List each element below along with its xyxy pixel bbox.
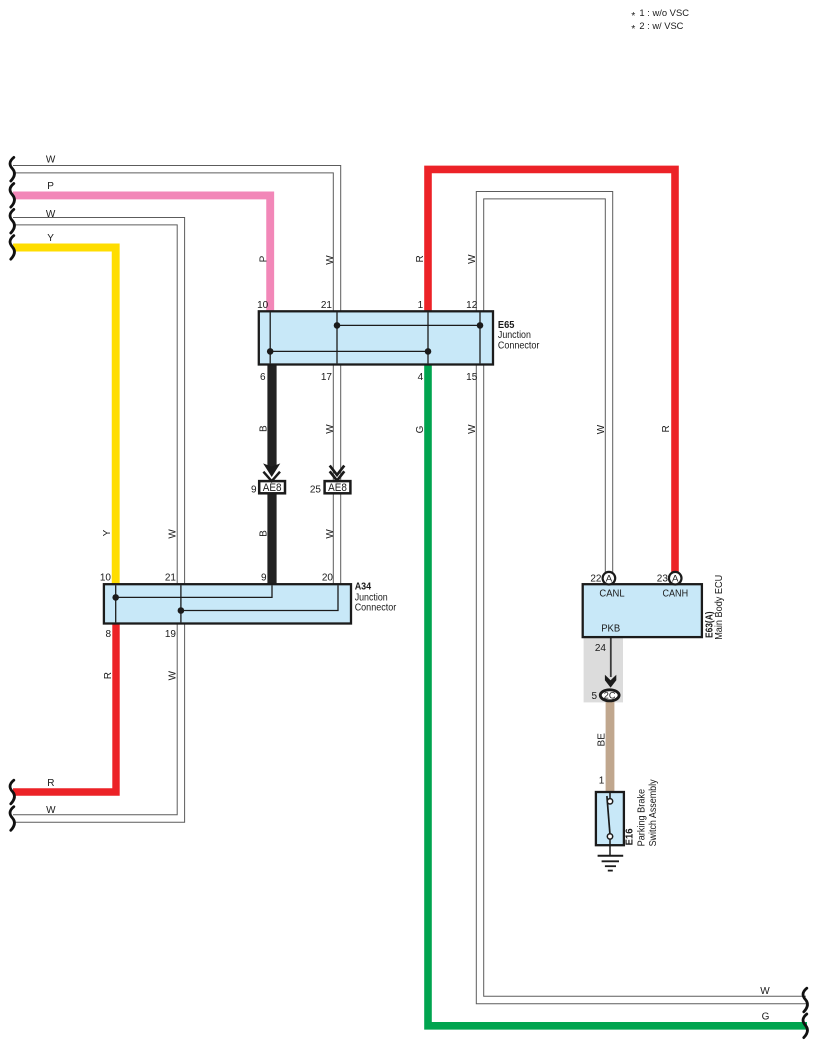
squiggle W left 2: [10, 209, 14, 233]
E65 internal pass-through 12-15: [479, 312, 481, 363]
svg-text:W: W: [596, 424, 607, 434]
svg-text:17: 17: [321, 372, 333, 383]
E63 pin 22 circle A: [603, 572, 616, 585]
wire Y yellow from left edge to A34 pin 10: [13, 248, 116, 586]
E65 internal pass-through 10-6: [269, 312, 271, 363]
svg-text:P: P: [47, 181, 54, 192]
svg-text:22: 22: [590, 574, 602, 585]
svg-text:E16: E16: [624, 828, 635, 845]
wire to ground: [609, 839, 611, 855]
svg-text:6: 6: [260, 372, 266, 383]
svg-text:Switch Assembly: Switch Assembly: [648, 779, 659, 846]
svg-text:Main Body ECU: Main Body ECU: [714, 575, 725, 640]
E65 junction dot pin 10/6: [267, 348, 274, 355]
svg-text:PKB: PKB: [601, 623, 620, 634]
svg-text:A34: A34: [355, 581, 372, 592]
svg-text:AE8: AE8: [263, 482, 282, 494]
svg-text:W: W: [467, 424, 478, 434]
svg-text:1: 1: [418, 300, 424, 311]
svg-text:Parking Brake: Parking Brake: [637, 789, 648, 847]
E65 internal pass-through 21-17: [336, 312, 338, 363]
svg-text:W: W: [168, 529, 179, 539]
svg-text:4: 4: [418, 372, 424, 383]
svg-text:B: B: [258, 530, 269, 537]
svg-text:CANL: CANL: [599, 589, 625, 600]
connector 2C ellipse: [600, 690, 619, 701]
svg-text:W: W: [467, 254, 478, 264]
E65 internal bus lower: [270, 350, 428, 352]
svg-text:10: 10: [100, 573, 112, 584]
A34 junction dot pin 10/8: [112, 594, 119, 601]
wire R red E65 pin 1 over top to E63 pin 23 CANH: [428, 169, 675, 576]
svg-text:W: W: [46, 209, 56, 220]
svg-text:9: 9: [261, 573, 267, 584]
svg-text:A: A: [672, 574, 679, 585]
wire R red A34 pin 8 to left edge exit: [13, 623, 116, 792]
svg-text:*: *: [631, 10, 635, 22]
junction connector E65 box: [259, 311, 493, 364]
wire W from left edge to E65 pin 21: [13, 169, 337, 312]
svg-text:W: W: [325, 529, 336, 539]
wire W E65 pin 12 to E63 pin 22 CANL: [480, 195, 609, 576]
E65 junction dot pin 1/4: [425, 348, 432, 355]
svg-text:P: P: [259, 255, 270, 262]
svg-text:Y: Y: [102, 529, 113, 536]
wire W E65 pin 17 to AE8 connector 25: [333, 364, 341, 482]
svg-text:21: 21: [321, 300, 333, 311]
svg-text:CANH: CANH: [663, 589, 689, 600]
svg-text:1: 1: [599, 776, 605, 787]
E65 junction dot pin 21/17: [334, 322, 341, 329]
wire B black AE8 connector 9 to A34 pin 9: [267, 494, 276, 585]
junction connector A34 box: [104, 584, 351, 623]
svg-text:W: W: [325, 424, 336, 434]
wire W A34 pin 19 to left edge exit: [13, 623, 181, 819]
E16 switch blade: [607, 796, 610, 834]
E65 junction dot pin 12/15: [477, 322, 484, 329]
svg-text:R: R: [415, 255, 426, 262]
squiggle W bottom left: [10, 807, 14, 831]
svg-text:BE: BE: [596, 733, 607, 747]
svg-text:15: 15: [466, 372, 478, 383]
AE8 connector 25 box: [325, 481, 351, 493]
E63 pin 23 circle A: [669, 572, 682, 585]
wire G green E65 pin 4 to bottom right exit: [428, 364, 807, 1026]
svg-text:A: A: [606, 574, 613, 585]
squiggle W left 1: [10, 157, 14, 181]
svg-text:12: 12: [466, 300, 478, 311]
svg-text:Connector: Connector: [498, 340, 540, 351]
svg-text:21: 21: [165, 573, 177, 584]
AE8 connector 9 chevron: [263, 463, 280, 477]
AE8 connector 9 box: [259, 481, 285, 493]
wire W AE8 connector 25 to A34 pin 20: [333, 494, 341, 585]
wire W from left edge to A34 pin 21: [13, 221, 181, 585]
svg-text:1 : w/o VSC: 1 : w/o VSC: [639, 8, 689, 19]
svg-text:W: W: [168, 670, 179, 680]
svg-text:23: 23: [657, 574, 669, 585]
E16 switch pin stub: [609, 793, 611, 799]
E65 internal pass-through 1-4: [427, 312, 429, 363]
A34 junction dot pin 21/19: [178, 607, 185, 614]
A34 internal branch pin 9: [116, 585, 272, 597]
svg-text:R: R: [103, 672, 114, 679]
squiggle Y left: [10, 236, 14, 260]
squiggle R bottom left: [10, 780, 14, 804]
wire W E65 pin 15 to bottom right exit: [480, 364, 806, 1000]
svg-text:B: B: [258, 425, 269, 432]
A34 internal pass-through 10-8: [115, 585, 117, 622]
svg-text:R: R: [661, 425, 672, 432]
svg-text:AE8: AE8: [328, 482, 347, 494]
A34 internal pass-through 21-19: [180, 585, 182, 622]
svg-text:8: 8: [105, 629, 111, 640]
parking brake switch E16 box: [596, 792, 624, 845]
svg-text:5: 5: [591, 691, 597, 702]
svg-text:2 : w/ VSC: 2 : w/ VSC: [639, 21, 683, 32]
AE8 connector 25 chevron: [330, 466, 345, 481]
svg-text:W: W: [325, 255, 336, 265]
wire PKB pin 24 to connector 2C (thin): [610, 637, 612, 677]
wire P pink from left edge to E65 pin 10: [13, 195, 270, 312]
ground: [598, 856, 624, 871]
svg-text:Y: Y: [47, 233, 54, 244]
shield gray area below E63 PKB pin: [584, 637, 623, 702]
E65 internal bus upper: [337, 324, 480, 326]
A34 internal branch pin 20: [181, 585, 338, 610]
svg-text:10: 10: [257, 300, 269, 311]
svg-text:G: G: [762, 1012, 770, 1023]
wire BE beige 2C connector to E16 pin 1: [606, 700, 615, 793]
E16 switch contact bottom: [607, 834, 612, 839]
svg-text:G: G: [415, 425, 426, 433]
svg-text:2C: 2C: [604, 691, 616, 701]
svg-text:25: 25: [310, 485, 322, 496]
main body ECU E63 box: [583, 584, 702, 637]
svg-text:20: 20: [322, 573, 334, 584]
squiggle W bottom right: [803, 988, 807, 1012]
svg-text:W: W: [46, 155, 56, 166]
svg-text:R: R: [47, 778, 54, 789]
wire B black E65 pin 6 to AE8 connector 9: [267, 364, 276, 467]
squiggle P left: [10, 184, 14, 208]
svg-text:19: 19: [165, 629, 177, 640]
arrow into 2C connector: [605, 675, 616, 688]
svg-text:24: 24: [595, 643, 607, 654]
svg-text:9: 9: [251, 485, 257, 496]
svg-text:*: *: [631, 23, 635, 35]
E16 switch contact top: [607, 799, 612, 804]
svg-text:Connector: Connector: [355, 603, 397, 614]
svg-text:W: W: [760, 986, 770, 997]
svg-text:W: W: [46, 805, 56, 816]
squiggle G bottom right: [803, 1014, 807, 1038]
